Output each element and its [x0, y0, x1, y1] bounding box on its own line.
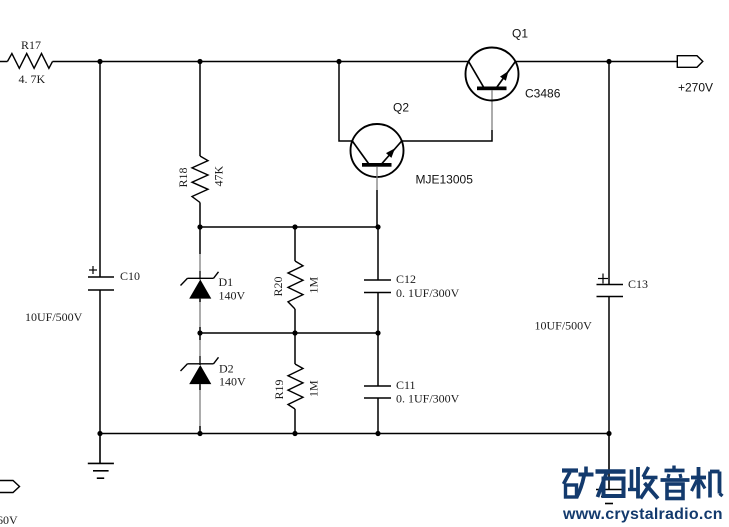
svg-text:MJE13005: MJE13005 [416, 173, 474, 187]
wire Q2 emitter to Q1 base [402, 130, 492, 141]
capacitor C10 [88, 266, 114, 290]
port bottom-left connector [0, 481, 20, 493]
wire C11 top lead [377, 333, 379, 386]
svg-text:47K: 47K [212, 166, 226, 187]
svg-text:0. 1UF/300V: 0. 1UF/300V [396, 286, 460, 300]
wire C12 top lead [377, 227, 379, 280]
junction bottom x100 [97, 431, 102, 436]
junction at 200,227 [197, 224, 202, 229]
capacitor C12 [364, 280, 391, 293]
ground right [596, 434, 622, 504]
svg-text:1M: 1M [307, 380, 321, 397]
wire R20 top lead [294, 227, 296, 261]
resistor R17 [7, 54, 52, 69]
junction bottom x295 [292, 431, 297, 436]
wire C13 bottom lead [608, 297, 610, 434]
watermark CJK logo [562, 466, 723, 499]
wire Q1 base lead [491, 90, 493, 130]
watermark char ji [691, 467, 723, 499]
junction bottom x609 [606, 431, 611, 436]
svg-text:Q2: Q2 [393, 101, 409, 115]
svg-text:www.crystalradio.cn: www.crystalradio.cn [562, 506, 723, 523]
svg-text:360V: 360V [0, 513, 18, 527]
wire R18 top lead [199, 62, 201, 157]
junction at 378,227 [375, 224, 380, 229]
wire D2 anode lead [199, 384, 201, 390]
svg-text:140V: 140V [219, 289, 246, 303]
wire top rail right of Q1 [515, 61, 678, 63]
svg-text:140V: 140V [219, 375, 246, 389]
capacitor C11 [364, 386, 391, 398]
junction bottom x378 [375, 431, 380, 436]
port +270V connector [677, 56, 703, 68]
wire D1 anode lead [199, 299, 201, 302]
junction at 378,333 [375, 330, 380, 335]
watermark char kuang [562, 467, 594, 498]
watermark char shou [628, 467, 658, 499]
svg-text:10UF/500V: 10UF/500V [535, 319, 593, 333]
transistor Q1 [466, 48, 519, 101]
svg-text:+270V: +270V [678, 81, 713, 95]
svg-text:C11: C11 [396, 378, 416, 392]
svg-text:D1: D1 [219, 275, 234, 289]
watermark char shi [596, 472, 626, 498]
wire top rail left stub [0, 61, 7, 63]
watermark char yin [661, 466, 690, 499]
svg-text:D2: D2 [219, 362, 234, 376]
wire R20 bottom lead [294, 309, 296, 333]
junction at 295,333 [292, 330, 297, 335]
transistor Q2 [351, 124, 404, 177]
svg-text:C12: C12 [396, 272, 416, 286]
junction at 295,227 [292, 224, 297, 229]
svg-text:R17: R17 [21, 38, 41, 52]
wire Q2 base lead [376, 167, 378, 190]
wire top rail from R17 to Q1 [53, 61, 469, 63]
junction at 200,333 [197, 330, 202, 335]
resistor R18 [192, 156, 208, 203]
svg-text:Q1: Q1 [512, 27, 528, 41]
svg-text:4. 7K: 4. 7K [19, 72, 46, 86]
svg-text:R18: R18 [176, 167, 190, 187]
junction bottom x200 [197, 431, 202, 436]
svg-text:1M: 1M [307, 277, 321, 294]
svg-text:C13: C13 [628, 277, 648, 291]
wire C10 branch upper [99, 62, 101, 278]
svg-text:0. 1UF/300V: 0. 1UF/300V [396, 392, 460, 406]
wire R18 bottom lead [199, 203, 201, 228]
svg-text:C3486: C3486 [525, 87, 561, 101]
node junction at x339 top [336, 59, 341, 64]
wire node B horizontal y227 [200, 226, 378, 228]
svg-text:R19: R19 [272, 379, 286, 399]
wire R19 bottom lead [294, 409, 296, 434]
wire C12 bottom lead [377, 293, 379, 334]
node junction at x100 top [97, 59, 102, 64]
zener diode D1 [181, 272, 219, 299]
svg-text:R20: R20 [271, 276, 285, 296]
junction at 609,61.5 [606, 59, 611, 64]
wire Q2 collector branch [339, 62, 352, 142]
resistor R20 [288, 261, 303, 309]
capacitor C13 [597, 274, 624, 297]
ground left [88, 434, 114, 479]
wire D1 cathode lead [199, 227, 201, 254]
wire C13 top lead [608, 62, 610, 285]
wire C10 branch lower [99, 290, 101, 434]
zener diode D2 [181, 357, 219, 384]
wire C11 bottom lead [377, 398, 379, 434]
wire node C horizontal y333 [200, 332, 378, 334]
svg-text:10UF/500V: 10UF/500V [25, 310, 83, 324]
wire D2 cathode lead [199, 333, 201, 340]
wire R19 top lead [294, 333, 296, 364]
resistor R19 [288, 364, 303, 409]
svg-text:C10: C10 [120, 269, 140, 283]
node junction at x200 top [197, 59, 202, 64]
wire bottom rail [100, 433, 609, 435]
